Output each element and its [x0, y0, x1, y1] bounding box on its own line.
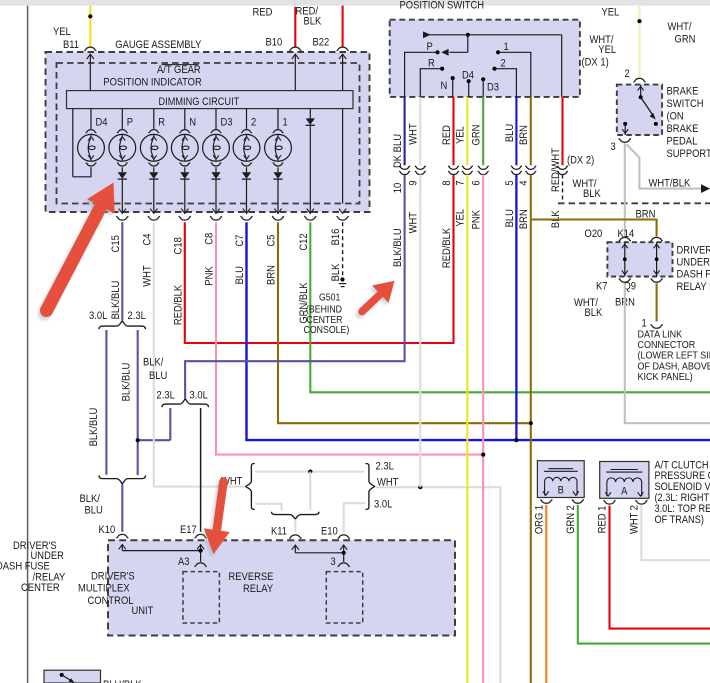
label WHT at option brace — [221, 475, 243, 487]
svg-text:MULTIPLEX: MULTIPLEX — [78, 583, 130, 595]
bottom switch symbol — [60, 673, 75, 683]
connector C4 — [148, 216, 160, 220]
label PNK (C8) — [204, 266, 216, 286]
svg-text:RED 1: RED 1 — [597, 506, 609, 534]
svg-text:RED: RED — [253, 6, 273, 18]
svg-text:6: 6 — [471, 180, 483, 185]
wire WHT solenoid A — [641, 506, 710, 561]
svg-text:4: 4 — [518, 180, 530, 185]
label YEL (brake wire) — [602, 6, 620, 18]
connector B pin2 — [572, 500, 584, 504]
connector K10 — [116, 534, 128, 538]
label C18 — [172, 237, 184, 254]
underdash fuse/relay box — [607, 242, 672, 276]
connector B16 — [337, 216, 349, 220]
svg-text:WHT: WHT — [408, 212, 420, 234]
solenoid A box — [600, 462, 649, 499]
svg-text:WHT/: WHT/ — [668, 21, 693, 33]
label N — [441, 80, 448, 92]
connector C8 — [210, 216, 222, 220]
wire WHT/BLK K7 down-right — [625, 283, 710, 423]
wire lamp 1 to connector — [274, 179, 281, 214]
indicator lamp 2 — [233, 109, 260, 166]
label A3 — [178, 556, 190, 568]
label YEL (B11 wire) — [53, 26, 71, 38]
wire BLK 3.0L to E17 — [200, 408, 202, 532]
svg-text:GRN 2: GRN 2 — [565, 505, 577, 534]
svg-text:BLK/BLU: BLK/BLU — [88, 408, 100, 447]
label BRAKE SWITCH (ON BRAKE PEDAL SUPPORT — [667, 85, 710, 160]
wire lamp 2 to connector — [243, 179, 250, 214]
brake switch contact top — [639, 95, 643, 99]
label D3 (switch) — [487, 82, 499, 94]
split brace C15 3.0L/2.3L — [99, 321, 146, 330]
wire E17 pin arrow — [197, 545, 204, 551]
label 2.3L (right branch) — [128, 310, 146, 322]
label B10 — [266, 37, 283, 49]
connector pin DX2 — [557, 166, 568, 175]
junction dot common bus — [466, 33, 470, 37]
contact 2 — [492, 67, 516, 97]
svg-text:CONSOLE): CONSOLE) — [304, 325, 350, 336]
svg-text:3: 3 — [331, 556, 336, 568]
svg-text:DASH FUSE: DASH FUSE — [0, 561, 50, 573]
wire BLU C7 bus — [247, 222, 710, 440]
right option brace — [366, 464, 375, 510]
wire WHT option output — [376, 487, 501, 683]
label BLK/BLU (C15) — [110, 281, 122, 320]
label A/T GEAR with overline — [157, 64, 201, 76]
label E10 — [321, 526, 338, 538]
svg-text:WHT: WHT — [408, 123, 420, 145]
indicator lamp N — [171, 109, 198, 166]
wire BLU pin5 down — [515, 175, 517, 441]
svg-text:3.0L: 3.0L — [190, 390, 208, 402]
indicator lamp D4 — [78, 109, 105, 166]
svg-text:PEDAL: PEDAL — [667, 136, 698, 148]
svg-text:BLK: BLK — [304, 15, 322, 27]
wire BRN from switch — [530, 97, 532, 165]
wire BLK/BLU 2.3L to tie — [169, 408, 171, 440]
label BRN (above connector) — [518, 125, 530, 145]
wire K10 pin arrow — [119, 545, 126, 551]
wire RED to B10 — [294, 7, 296, 47]
connector B10 — [289, 47, 301, 51]
label PNK (below connector) — [471, 209, 483, 229]
svg-text:2.3L: 2.3L — [376, 461, 394, 473]
svg-text:BLK/: BLK/ — [143, 357, 164, 369]
svg-text:CENTER: CENTER — [21, 582, 60, 594]
wire E10 to pin3 — [343, 553, 345, 562]
wire BLK/BLU 2.3L branch — [137, 330, 139, 475]
merge brace to K10 — [99, 475, 146, 484]
label WHT/ BLK (K7 wire) — [574, 297, 603, 319]
wire lamp D3 to connector — [212, 179, 219, 214]
svg-text:2.3L: 2.3L — [128, 310, 146, 322]
wire B10 pin to dimming circuit — [292, 54, 299, 90]
ground G501 junction dot — [340, 277, 344, 281]
label 2 — [501, 57, 506, 69]
svg-text:RED/WHT: RED/WHT — [550, 148, 562, 192]
svg-text:C7: C7 — [234, 235, 246, 247]
label C15 — [110, 235, 122, 252]
brake switch contact to pin3 — [622, 122, 628, 135]
svg-text:1: 1 — [504, 41, 509, 53]
wire RED from switch — [452, 97, 454, 165]
label BLU (C7) — [234, 266, 246, 284]
indicator lamp R — [140, 109, 167, 166]
label YEL (above connector) — [455, 126, 467, 144]
svg-text:SWITCH: SWITCH — [667, 98, 704, 110]
svg-text:GRN: GRN — [471, 125, 483, 146]
label DATA LINK CONNECTOR (LOWER LEFT SIDE OF DASH, ABOVE KICK PANEL) — [638, 329, 710, 383]
svg-text:BLU: BLU — [234, 266, 246, 284]
svg-text:C8: C8 — [204, 233, 216, 245]
label P — [427, 41, 433, 53]
brake switch box — [617, 85, 662, 135]
label R (lamp) — [158, 117, 165, 129]
wire BRN to fuse box — [531, 220, 657, 237]
contact P — [405, 50, 440, 97]
svg-text:YEL: YEL — [455, 126, 467, 144]
label BRN (below connector) — [518, 209, 530, 229]
label K10 — [99, 524, 116, 536]
svg-text:C4: C4 — [141, 234, 153, 246]
wire 2.3L tie stub — [140, 439, 171, 441]
label BLK/BLU (2.3L branch) — [121, 363, 133, 402]
multiplex control unit box — [108, 540, 455, 635]
label WHT/BLK (arrow wire) — [649, 178, 691, 190]
svg-text:BRAKE: BRAKE — [667, 85, 699, 97]
wire E17 to A3 — [200, 551, 202, 562]
svg-text:RELAY BO: RELAY BO — [677, 281, 710, 293]
svg-text:5: 5 — [504, 180, 516, 185]
label BLK/ BLU (merged) — [80, 493, 103, 517]
label DRIVER'S MULTIPLEX CONTROL UNIT — [78, 570, 154, 617]
wire RED/WHT from switch — [561, 97, 563, 165]
svg-text:3.0L: 3.0L — [89, 310, 107, 322]
pin number 10 — [392, 183, 404, 194]
contact R — [420, 67, 444, 97]
label RED/BLK (C18) — [172, 284, 184, 325]
wire WHT 2.3L top path — [255, 471, 364, 473]
label WHT/ BLK (DX2 side) — [573, 178, 602, 200]
label O20 — [585, 228, 603, 240]
svg-text:YEL: YEL — [53, 26, 71, 38]
connector pin 9 — [415, 166, 426, 175]
wire WHT to K11 — [294, 519, 296, 532]
svg-text:N: N — [441, 80, 448, 92]
svg-text:G501: G501 — [319, 292, 341, 303]
indicator lamp D3 — [203, 109, 230, 166]
label WHT (C4) — [141, 265, 153, 287]
connector B11 — [84, 47, 96, 51]
connector brake pin 3 — [619, 139, 631, 143]
svg-text:DRIVER'S: DRIVER'S — [677, 244, 710, 256]
wire BLK B16 hidden — [342, 222, 344, 278]
svg-text:8: 8 — [441, 180, 453, 185]
reverse relay sub-box A3 — [183, 572, 219, 623]
fuse element left — [622, 242, 628, 276]
svg-text:10: 10 — [392, 183, 404, 194]
wire WHT bottom-right stub — [344, 503, 366, 532]
merge brace to K11 — [272, 512, 320, 519]
connector E17 — [195, 534, 207, 538]
brake switch common wire — [638, 85, 644, 98]
label RED/WHT (above connector) — [550, 148, 562, 192]
svg-text:BLU: BLU — [504, 209, 516, 227]
pin number 7 — [455, 180, 467, 185]
label REVERSE RELAY — [229, 571, 274, 595]
label BLU/BLK (cut) — [103, 679, 142, 683]
diode under lamp 1 — [273, 167, 282, 179]
label BLU (below connector) — [504, 209, 516, 227]
svg-text:K7: K7 — [596, 281, 608, 293]
label C4 — [141, 234, 153, 246]
junction dot BLU bus — [514, 438, 518, 442]
svg-text:1: 1 — [642, 318, 647, 330]
label WHT (below connector) — [408, 212, 420, 234]
svg-text:BRN: BRN — [266, 265, 278, 285]
wire D4 lamp return loop — [73, 109, 91, 177]
svg-text:UNDER-: UNDER- — [677, 257, 710, 269]
indicator lamp P — [109, 109, 136, 166]
label P (lamp) — [127, 117, 133, 129]
label BLK/BLU (3.0L branch) — [88, 408, 100, 447]
wire BLK hidden below DX2 — [562, 175, 564, 204]
svg-text:B: B — [558, 485, 564, 497]
svg-text:DIMMING CIRCUIT: DIMMING CIRCUIT — [159, 96, 240, 108]
wire YEL pin7 down — [466, 175, 468, 683]
label (DX 2) — [567, 154, 594, 166]
connector K14 — [651, 237, 663, 241]
indicator lamp 1 — [265, 109, 292, 166]
label RED (above connector) — [441, 125, 453, 145]
wire lamp R to connector — [150, 179, 157, 214]
wire DK BLU from switch — [404, 97, 406, 165]
svg-text:YEL: YEL — [455, 209, 467, 227]
label 1 (lamp) — [283, 117, 288, 129]
svg-text:DASH FUS: DASH FUS — [677, 269, 710, 281]
wire BLK/BLU from switch pin10 — [185, 175, 405, 399]
wire RED solenoid A — [610, 506, 710, 629]
svg-text:BLK: BLK — [585, 307, 603, 319]
wire RED to B22 — [342, 6, 344, 47]
label (BEHIND CENTER CONSOLE) — [304, 305, 350, 336]
svg-text:A: A — [621, 485, 628, 497]
svg-text:(DX 2): (DX 2) — [567, 154, 594, 166]
wire WHT/BLK branch right with arrow — [627, 145, 710, 194]
contact D4 — [467, 79, 471, 97]
svg-text:BLU: BLU — [85, 505, 103, 517]
diode under lamp N — [180, 167, 189, 179]
label 1 — [504, 41, 509, 53]
connector pin 10 — [399, 166, 410, 175]
wire BLK/BLU to K10 — [121, 485, 123, 532]
junction dot 2.3L tie-in — [136, 438, 140, 442]
contact D3 — [481, 77, 485, 97]
label K14 — [618, 228, 635, 240]
red annotation arrow 3 (A3) — [202, 477, 230, 557]
svg-text:R: R — [428, 57, 435, 69]
connector K11 — [289, 535, 301, 539]
label RED 1 — [597, 506, 609, 534]
label BRN (to relay) — [636, 209, 656, 221]
svg-text:B10: B10 — [266, 37, 283, 49]
label BLK/BLU (below pin10) — [392, 228, 404, 267]
label 2.3L (second brace) — [157, 390, 175, 402]
pin number 5 — [504, 180, 516, 185]
svg-text:N: N — [189, 117, 196, 129]
label BRN (Q9 wire) — [615, 297, 635, 309]
svg-text:BLK: BLK — [583, 188, 601, 200]
svg-text:B22: B22 — [313, 37, 330, 49]
svg-text:R: R — [158, 117, 165, 129]
connector B pin1 — [540, 500, 552, 504]
pin number 4 — [518, 180, 530, 185]
svg-text:BLU/BLK: BLU/BLK — [103, 679, 142, 683]
svg-text:C5: C5 — [266, 235, 278, 247]
svg-text:(ON: (ON — [667, 110, 684, 122]
split brace pin10 2.3L/3.0L — [162, 399, 209, 408]
label 2 (lamp) — [251, 117, 256, 129]
connector A pin2 — [635, 500, 647, 504]
label G501 — [319, 292, 341, 303]
label Q9 — [624, 281, 637, 293]
junction dot PNK tie — [481, 453, 485, 457]
wire WHT pin9 down — [419, 175, 421, 488]
label YEL (below connector) — [455, 209, 467, 227]
reverse relay sub-box 3 — [326, 572, 362, 623]
svg-text:DK BLU: DK BLU — [392, 134, 404, 168]
red annotation arrow 2 (G501) — [356, 281, 394, 318]
label BLK/ BLU (pin10 branch) — [143, 357, 167, 383]
wire ORG solenoid B — [545, 505, 547, 683]
label C12 — [298, 233, 310, 250]
label B22 — [313, 37, 330, 49]
wire WHT/BLK brake to relay — [624, 143, 626, 236]
label 1 (data link pin) — [642, 318, 647, 330]
junction dot brake wire — [637, 19, 641, 23]
connector C5 — [272, 216, 284, 220]
connector relay pin 3 — [338, 563, 350, 567]
connector B22 — [337, 47, 349, 51]
wire B11 pin to dimming circuit — [87, 54, 94, 90]
svg-text:ORG 1: ORG 1 — [534, 505, 546, 534]
diode under lamp P — [118, 167, 127, 179]
wire PNK pin6 down — [482, 175, 484, 683]
diode under lamp R — [149, 167, 158, 179]
label GRN/BLK (C12) — [298, 282, 310, 324]
diode under lamp D3 — [211, 167, 220, 179]
ground G501 symbol — [339, 284, 346, 287]
label B11 — [63, 39, 79, 51]
connector brake pin 2 — [633, 78, 645, 82]
wire BLK/BLU 3.0L branch — [105, 330, 107, 475]
junction dot E17 — [199, 549, 203, 553]
wire WHT drop to K11 brace — [309, 472, 311, 510]
svg-text:CONTROL: CONTROL — [88, 595, 134, 607]
svg-text:A/T GEAR: A/T GEAR — [157, 64, 201, 76]
svg-text:WHT: WHT — [141, 265, 153, 287]
svg-text:B11: B11 — [63, 39, 79, 51]
junction dot on YEL wire — [88, 14, 92, 18]
junction dot on WHT top path — [308, 470, 312, 474]
label WHT/ GRN — [668, 21, 696, 45]
svg-text:PNK: PNK — [471, 209, 483, 229]
label BRN (C5) — [266, 265, 278, 285]
connector pin 4 — [525, 166, 536, 175]
svg-text:K10: K10 — [99, 524, 116, 536]
svg-text:A3: A3 — [178, 556, 190, 568]
label RED/BLK (below connector) — [441, 227, 453, 268]
svg-text:YEL: YEL — [602, 6, 620, 18]
label POSITION SWITCH (title) — [400, 0, 485, 12]
label WHT/ YEL (DX 1) — [590, 34, 617, 56]
arrow down on B16 column — [339, 209, 346, 214]
label ORG 1 — [534, 505, 546, 534]
wire WHT bottom-left stub — [255, 504, 282, 511]
wire BLK/BLU C15 — [121, 222, 123, 320]
label DRIVER'S UNDER DASH FUSE/RELAY CENTER — [0, 540, 66, 594]
label D4 (lamp) — [96, 117, 108, 129]
svg-text:OF TRANS): OF TRANS) — [655, 514, 704, 526]
label DRIVER'S UNDER-DASH FUSE/RELAY BOX — [677, 244, 710, 293]
label BLK (B16) — [330, 263, 342, 281]
junction dot E10 — [342, 551, 346, 555]
svg-text:1: 1 — [283, 117, 288, 129]
wire K10-E17 link — [122, 550, 200, 552]
label POSITION INDICATOR — [103, 77, 201, 89]
wire BRN Q9 to data link — [656, 283, 658, 321]
switch common bus with arrow — [423, 31, 562, 38]
label WHT 2 — [629, 505, 641, 534]
svg-text:BLU: BLU — [504, 124, 516, 142]
connector pin 8 — [448, 166, 459, 175]
label BLK (below connector) — [550, 210, 562, 228]
svg-text:RED/BLK: RED/BLK — [172, 284, 184, 325]
connector C18 — [179, 216, 191, 220]
label E17 — [180, 524, 197, 536]
label (DX 1) — [582, 57, 609, 69]
wire BRN C5 — [278, 222, 529, 423]
svg-text:CONNECTOR: CONNECTOR — [638, 340, 696, 351]
connector C7 — [240, 216, 252, 220]
label GAUGE ASSEMBLY — [115, 39, 202, 51]
svg-text:D3: D3 — [487, 82, 499, 94]
position switch box — [390, 20, 580, 97]
label DK BLU (above connector) — [392, 134, 404, 168]
label R — [428, 57, 435, 69]
pin number 8 — [441, 180, 453, 185]
wire RED/BLK C18-switch pin8 — [185, 175, 454, 344]
svg-text:P: P — [127, 117, 133, 129]
svg-text:BLK/BLU: BLK/BLU — [121, 363, 133, 402]
svg-text:E10: E10 — [321, 526, 338, 538]
svg-text:POSITION SWITCH: POSITION SWITCH — [400, 0, 485, 12]
dimming circuit block — [67, 91, 354, 109]
contact 1 — [496, 50, 531, 97]
label B16 — [330, 229, 342, 246]
wire WHT from switch — [419, 97, 421, 165]
connector E10 — [338, 535, 350, 539]
svg-text:3: 3 — [611, 141, 616, 153]
svg-text:GAUGE ASSEMBLY: GAUGE ASSEMBLY — [115, 39, 202, 51]
contact N — [451, 76, 455, 97]
svg-text:(DX 1): (DX 1) — [582, 57, 609, 69]
svg-text:RED/BLK: RED/BLK — [441, 227, 453, 268]
wire B22 pin through box to B16 — [339, 54, 346, 203]
